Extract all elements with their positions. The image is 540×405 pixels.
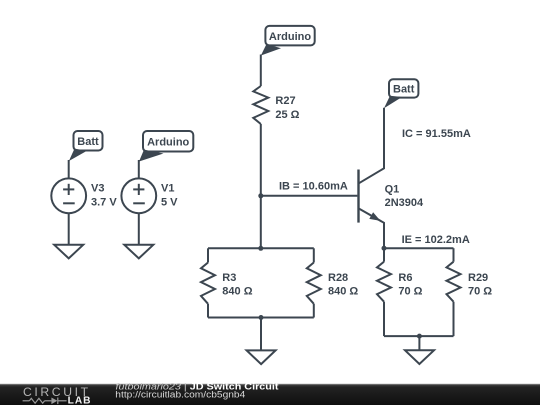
wire to ground — [418, 336, 420, 350]
resistor R27 — [253, 86, 268, 124]
ground (V3) — [54, 245, 83, 259]
svg-text:5 V: 5 V — [161, 197, 178, 209]
node bottom rail junction — [259, 315, 264, 320]
V1 minus sign — [133, 202, 145, 204]
right branch wire — [453, 248, 455, 262]
R6/R29 parallel block — [377, 248, 492, 364]
wire to ground — [260, 318, 262, 351]
V1 plus sign — [133, 188, 144, 190]
flag Batt (top right) — [384, 79, 418, 108]
svg-text:Batt: Batt — [77, 136, 99, 148]
top rail wire — [384, 247, 454, 249]
V3 minus sign — [63, 202, 75, 204]
svg-text:V1: V1 — [161, 182, 174, 194]
svg-text:Arduino: Arduino — [147, 137, 189, 149]
svg-text:V3: V3 — [91, 182, 104, 194]
svg-text:IE = 102.2mA: IE = 102.2mA — [402, 234, 470, 246]
V1 source circle — [121, 178, 156, 213]
svg-text:25 Ω: 25 Ω — [275, 109, 299, 121]
node base junction — [258, 193, 263, 198]
node top rail junction — [258, 246, 263, 251]
resistor R3 — [201, 263, 215, 304]
flag Batt (V3) — [69, 131, 103, 161]
svg-text:Batt: Batt — [393, 84, 415, 96]
svg-text:R3: R3 — [222, 272, 236, 284]
node bottom rail junction — [417, 334, 422, 339]
svg-text:840 Ω: 840 Ω — [222, 285, 252, 297]
voltage source V1 — [121, 131, 193, 258]
wire R28 to bottom rail — [313, 304, 315, 318]
collector lead — [359, 108, 384, 183]
wire flag to V1 — [138, 160, 140, 179]
V3 source circle — [51, 178, 86, 213]
svg-text:LAB: LAB — [68, 395, 92, 405]
svg-text:R29: R29 — [468, 272, 488, 284]
wire R27 to base node — [260, 124, 262, 248]
svg-text:R27: R27 — [275, 95, 295, 107]
bottom rail wire — [208, 317, 314, 319]
wire R3 to bottom rail — [207, 304, 209, 318]
top rail wire — [208, 247, 314, 249]
svg-text:IC = 91.55mA: IC = 91.55mA — [402, 128, 471, 140]
left branch wire — [207, 248, 209, 262]
svg-text:70 Ω: 70 Ω — [398, 285, 422, 297]
bottom rail wire — [384, 335, 454, 337]
wire R6 to bottom rail — [383, 302, 385, 336]
wire flag to R27 — [260, 55, 262, 87]
transistor Q1 — [359, 108, 425, 248]
ground (R3/R28) — [247, 350, 276, 364]
svg-text:70 Ω: 70 Ω — [468, 285, 492, 297]
svg-text:3.7 V: 3.7 V — [91, 197, 117, 209]
svg-text:IB = 10.60mA: IB = 10.60mA — [279, 180, 348, 192]
resistor R6 — [377, 262, 391, 302]
wire base — [261, 195, 358, 197]
wire flag to V3 — [68, 160, 70, 179]
base bar — [357, 170, 359, 223]
wire V1 to ground — [138, 213, 140, 245]
footer bar — [0, 382, 540, 405]
svg-text:840 Ω: 840 Ω — [328, 285, 358, 297]
ground (R6/R29) — [405, 350, 434, 364]
wire V3 to ground — [68, 213, 70, 245]
svg-text:Arduino: Arduino — [269, 31, 311, 43]
ground (V1) — [124, 245, 153, 259]
svg-text:R28: R28 — [328, 272, 348, 284]
svg-text:2N3904: 2N3904 — [385, 197, 424, 209]
svg-text:R6: R6 — [398, 272, 412, 284]
flag Arduino (V1) — [139, 131, 193, 162]
emitter lead — [359, 209, 384, 249]
node emitter junction — [382, 246, 387, 251]
voltage source V3 — [51, 131, 117, 258]
R3/R28 parallel block — [201, 246, 358, 364]
emitter arrow — [369, 212, 380, 221]
right branch wire — [313, 248, 315, 262]
svg-text:http://circuitlab.com/cb5gnb4: http://circuitlab.com/cb5gnb4 — [115, 390, 245, 400]
resistor R29 — [447, 262, 461, 302]
svg-text:Q1: Q1 — [385, 184, 400, 196]
wire R29 to bottom rail — [453, 302, 455, 336]
logo circuit glyph — [23, 398, 67, 405]
V3 plus sign — [63, 188, 74, 190]
left branch wire — [383, 248, 385, 262]
flag Arduino (top) — [261, 26, 315, 56]
resistor R28 — [307, 263, 321, 304]
